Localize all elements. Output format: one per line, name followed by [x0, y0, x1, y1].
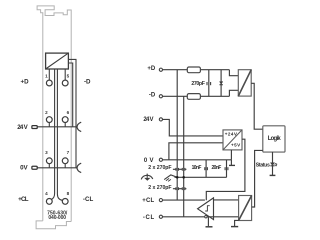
suppressor diode vertical — [220, 70, 222, 97]
jumper contact row3 — [76, 163, 81, 172]
24V flag connector — [32, 126, 37, 129]
terminal circle -D — [159, 95, 162, 98]
wire -CL row — [162, 216, 238, 218]
svg-text:+CL: +CL — [142, 198, 154, 204]
svg-text:3: 3 — [45, 150, 48, 155]
module body outline (left edge, top latch) — [37, 6, 71, 222]
capacitor pair row2 on A — [173, 188, 176, 190]
terminal circle 0V — [159, 158, 162, 161]
transmitter box — [46, 53, 69, 69]
capacitor 10nF — [204, 167, 206, 170]
svg-text:8: 8 — [67, 191, 70, 196]
terminal circle +D — [159, 68, 162, 71]
wire +D jog into opto1 — [229, 70, 238, 76]
hatched earth symbol — [164, 175, 177, 180]
stub terminal 3 to row3 — [48, 164, 50, 168]
wire 0V row — [162, 159, 231, 161]
svg-text:1: 1 — [45, 73, 48, 78]
svg-text:+5V: +5V — [231, 142, 241, 147]
wire box to terminal 5 — [64, 69, 66, 80]
10nF branch vertical — [205, 160, 207, 178]
suppressor diode symbol — [220, 82, 223, 85]
wire box to terminal 1 — [48, 69, 50, 80]
wire middle to terminal 8 — [57, 69, 62, 200]
Logik output wire down to opto2 — [252, 150, 263, 207]
LED ground — [272, 166, 274, 175]
stub terminal 2 to row2 — [48, 123, 50, 127]
0V flag connector — [32, 166, 37, 169]
svg-text:2: 2 — [45, 110, 48, 115]
svg-text:6: 6 — [67, 110, 70, 115]
opto-coupler 2 box — [239, 196, 252, 221]
terminal 4 circle — [46, 199, 52, 205]
terminal 8 circle — [62, 199, 68, 205]
wire +D row — [162, 69, 229, 71]
wire -D jog into opto1 — [229, 90, 238, 96]
jumper contact row2 — [76, 122, 81, 131]
svg-text:+D: +D — [21, 78, 30, 85]
svg-text:040-000: 040-000 — [48, 215, 66, 221]
svg-text:270pF: 270pF — [191, 81, 205, 87]
LED arrows — [275, 163, 277, 164]
svg-text:+CL: +CL — [18, 196, 29, 203]
wire +CL row — [162, 199, 205, 201]
status LED symbol — [270, 163, 274, 166]
terminal 6 circle — [62, 117, 68, 123]
terminal 7 circle — [62, 158, 68, 164]
wire op-amp to opto2 — [214, 199, 239, 201]
stub terminal 6 to row2 — [64, 123, 66, 127]
svg-text:2 x 270pF: 2 x 270pF — [148, 165, 171, 171]
capacitor pair row2 on B — [181, 187, 183, 190]
terminal circle +CL — [159, 199, 162, 202]
svg-text:4: 4 — [45, 191, 48, 196]
capacitor pair row1 on B — [181, 168, 183, 171]
svg-text:-CL: -CL — [83, 196, 94, 203]
svg-text:24 V: 24 V — [17, 124, 28, 131]
wire 0V branch up to DCDC — [169, 143, 223, 160]
junction dot B — [182, 176, 185, 179]
wire box right to 24V row (vertical x=72.7) — [68, 63, 72, 127]
DCDC bottom pin to 0V — [230, 150, 232, 160]
20nF branch vertical with capacitor — [226, 160, 228, 178]
resistor R bottom — [187, 94, 200, 100]
DC/DC converter box — [223, 130, 242, 150]
wire 24V to DCDC — [162, 119, 223, 135]
terminal 2 circle — [46, 117, 52, 123]
capacitor 270pF on vertical — [208, 70, 210, 97]
op-amp ground — [207, 217, 209, 226]
svg-text:+D: +D — [147, 66, 156, 72]
terminal 5 circle — [62, 80, 68, 86]
inverting input bubble — [205, 216, 207, 218]
internal ground below 0V junction — [230, 160, 232, 165]
svg-text:+24V: +24V — [225, 132, 238, 137]
capacitor pair row1 on A — [173, 168, 176, 170]
wire -D row — [162, 95, 229, 97]
DCDC +5V output wire to op-amp — [206, 139, 245, 200]
hysteresis symbol — [205, 206, 210, 211]
svg-text:Logik: Logik — [268, 136, 282, 142]
terminal circle 24V — [159, 118, 162, 121]
opto2 ground — [235, 220, 239, 226]
svg-text:5: 5 — [67, 73, 70, 78]
svg-text:0 V: 0 V — [20, 164, 28, 171]
vertical B from -D — [183, 96, 185, 216]
svg-text:-D: -D — [84, 78, 91, 85]
antenna earth symbol — [141, 175, 153, 179]
stub terminal 7 to row3 — [64, 164, 66, 168]
terminal 1 circle — [46, 80, 52, 86]
svg-text:10nF: 10nF — [192, 165, 202, 171]
module bottom foot outline — [36, 221, 71, 229]
resistor R top — [187, 67, 200, 73]
terminal 3 circle — [46, 158, 52, 164]
wire box right to 0V jumper (vertical x=76) — [68, 59, 76, 167]
svg-text:24 V: 24 V — [143, 117, 153, 123]
functional earth row — [175, 176, 227, 178]
opto1 output wire to Logik — [251, 83, 263, 129]
svg-text:-CL: -CL — [143, 215, 155, 221]
opto-coupler 1 box — [238, 70, 251, 96]
svg-text:20nF: 20nF — [212, 165, 222, 171]
op-amp triangle — [198, 198, 214, 220]
row2 wire 24V — [37, 126, 76, 128]
vertical A from +D — [176, 70, 178, 200]
wire middle to terminal 4 — [51, 69, 54, 200]
Logik box — [263, 126, 285, 152]
svg-text:7: 7 — [67, 150, 70, 155]
row3 wire 0V — [37, 167, 76, 169]
svg-text:-D: -D — [149, 93, 156, 99]
svg-text:2 x 270pF: 2 x 270pF — [148, 185, 171, 191]
junction dot A — [176, 176, 179, 179]
Logik bottom pin to LED — [272, 152, 274, 163]
svg-text:0 V: 0 V — [144, 158, 154, 164]
svg-text:Status: Status — [256, 162, 270, 168]
terminal circle -CL — [159, 215, 162, 218]
